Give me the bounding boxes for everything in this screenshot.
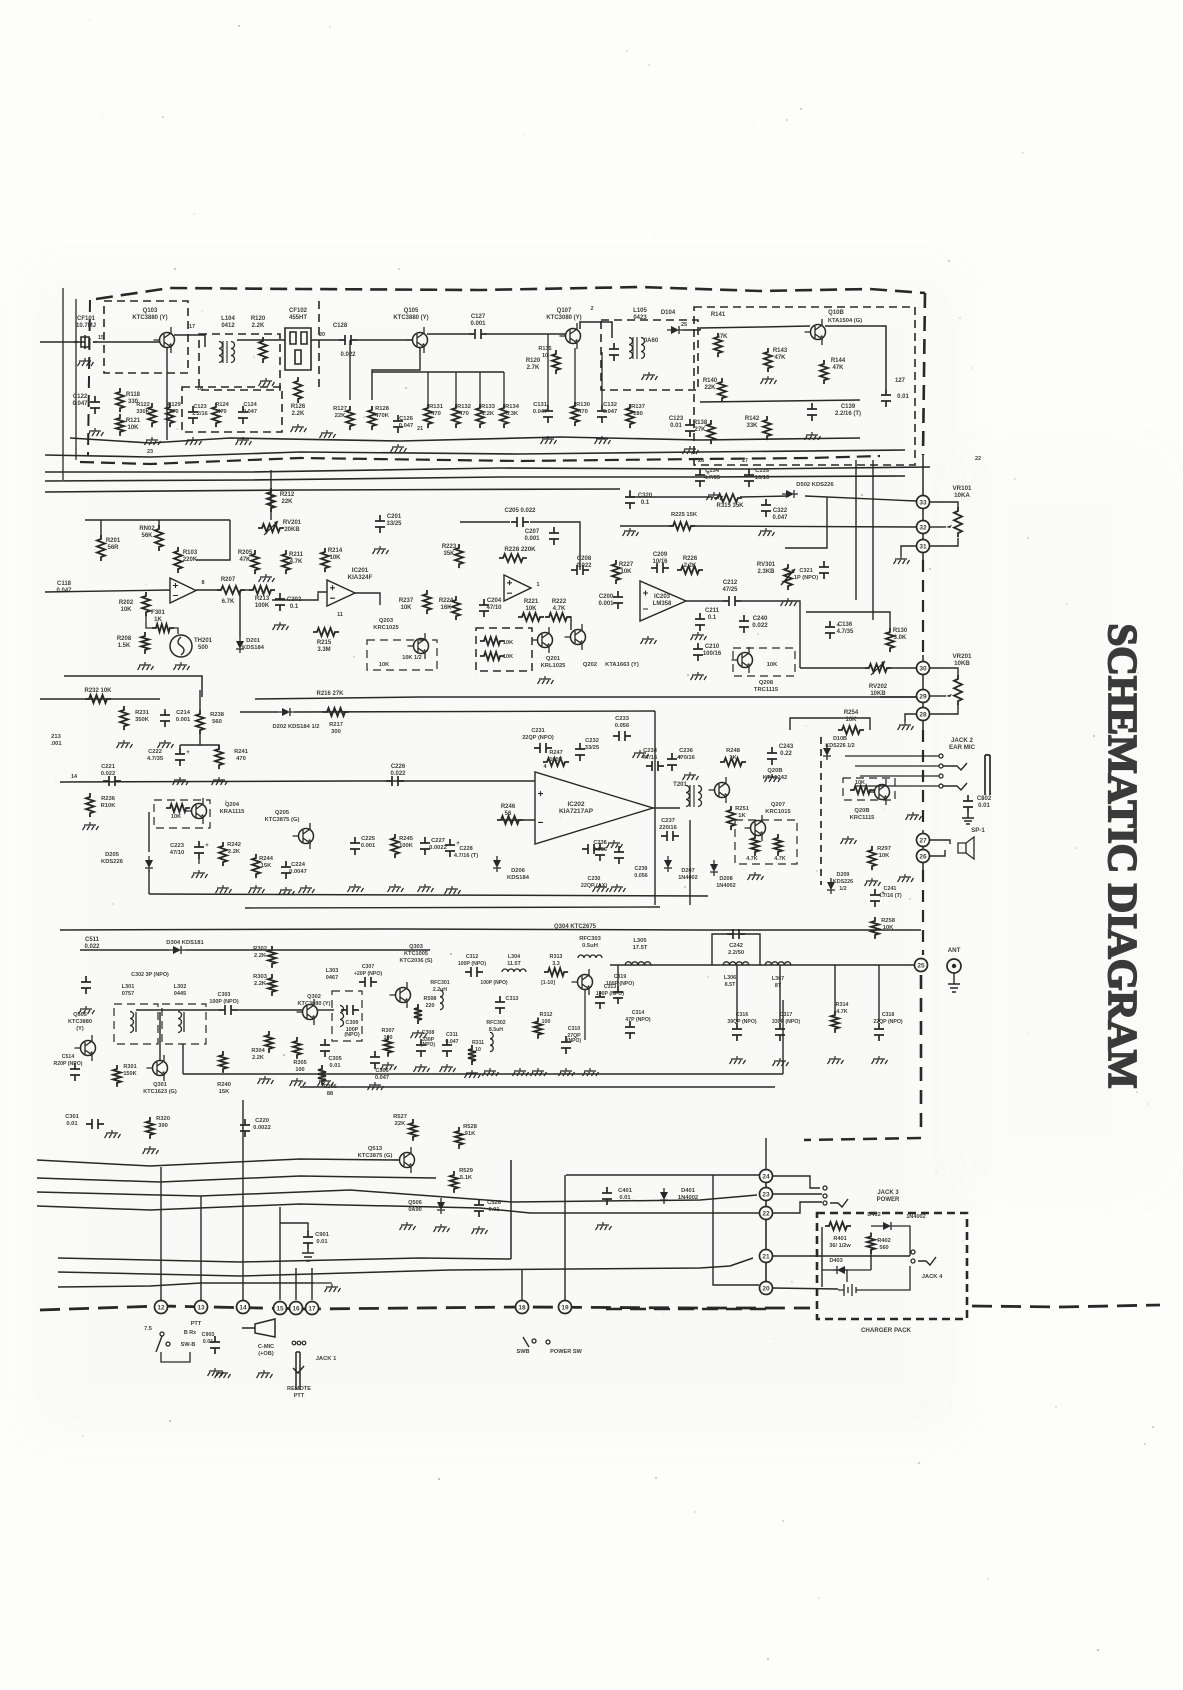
svg-text:31: 31 [919, 544, 927, 551]
diode D502 [782, 490, 798, 498]
wire band2 loop4 [158, 520, 160, 528]
svg-text:22: 22 [762, 1211, 770, 1218]
ceramic filter CF102 [285, 328, 311, 370]
svg-text:KRC1025: KRC1025 [373, 625, 399, 631]
bottom connector dashed line [40, 1306, 810, 1310]
svg-text:JACK 3: JACK 3 [877, 1190, 899, 1196]
capacitor C220 [240, 1119, 250, 1137]
svg-text:36/ 1/2w: 36/ 1/2w [829, 1243, 851, 1249]
capacitor C321 [819, 561, 829, 579]
capacitor C313 [495, 996, 505, 1014]
resistor R527 vert [409, 1119, 417, 1141]
wire Q103 emitter [166, 348, 168, 440]
svg-text:KRC1115: KRC1115 [850, 815, 876, 821]
op-amp IC201c [504, 575, 531, 601]
svg-text:C305: C305 [328, 1056, 341, 1062]
vertical to pin 24 [765, 1138, 767, 1176]
resistor R245 vert [391, 834, 399, 858]
ground C122 [88, 428, 104, 436]
capacitor C210 [693, 643, 703, 661]
capacitor C310 [561, 1036, 571, 1054]
svg-text:JACK 1: JACK 1 [316, 1356, 337, 1362]
svg-text:23: 23 [147, 449, 153, 455]
resistor R258 vert [871, 917, 879, 939]
svg-text:R131: R131 [429, 404, 444, 410]
svg-text:0A90: 0A90 [408, 1207, 421, 1213]
wire 232 row [40, 698, 160, 700]
capacitor C139 [807, 403, 817, 421]
transistor Q304 [578, 975, 593, 990]
svg-text:R527: R527 [393, 1114, 407, 1120]
svg-text:Q203: Q203 [379, 618, 394, 624]
svg-text:4.7/16 (T): 4.7/16 (T) [454, 853, 478, 859]
svg-text:10K: 10K [120, 607, 132, 613]
svg-text:32: 32 [919, 525, 927, 532]
svg-text:KDS226 1/2: KDS226 1/2 [825, 743, 854, 749]
ground C401 [596, 1222, 612, 1230]
transformer T201 [686, 786, 690, 807]
resistor R320 vert [146, 1117, 154, 1139]
svg-text:100P (NPO): 100P (NPO) [606, 981, 634, 987]
svg-text:B Rx: B Rx [184, 1330, 196, 1336]
svg-text:0.01: 0.01 [978, 803, 990, 809]
wires jack2 [845, 755, 939, 757]
ground VR201 [905, 714, 916, 722]
svg-text:Q506: Q506 [408, 1200, 422, 1206]
svg-text:L104: L104 [221, 316, 235, 322]
svg-text:470: 470 [169, 409, 178, 415]
svg-text:C214: C214 [176, 710, 191, 716]
svg-text:Q201: Q201 [546, 656, 561, 662]
svg-text:C401: C401 [618, 1188, 633, 1194]
svg-text:C231: C231 [531, 728, 544, 734]
capacitor C202 [275, 593, 285, 611]
svg-text:KTC3880 (Y): KTC3880 (Y) [393, 315, 428, 321]
capacitor C223 [194, 841, 204, 859]
svg-text:R247: R247 [549, 750, 562, 756]
svg-text:IC202: IC202 [567, 801, 584, 808]
connector pin 32 [917, 521, 930, 534]
svg-text:100K: 100K [255, 603, 270, 609]
left border vertical 2 [75, 299, 77, 460]
svg-text:POWER SW: POWER SW [550, 1349, 582, 1355]
ground C134 [707, 492, 723, 500]
svg-text:R216 27K: R216 27K [316, 691, 344, 697]
svg-text:21: 21 [762, 1254, 770, 1261]
svg-text:C242: C242 [729, 943, 743, 949]
svg-text:C232: C232 [585, 738, 599, 744]
svg-text:22K: 22K [281, 499, 293, 505]
svg-text:10K: 10K [525, 606, 537, 612]
resistor R238 vert [196, 710, 204, 734]
svg-text:2.2K: 2.2K [254, 981, 267, 987]
svg-text:SCHEMATIC DIAGRAM: SCHEMATIC DIAGRAM [1100, 623, 1146, 1088]
svg-text:1: 1 [536, 582, 539, 588]
wire drop 14 [242, 1100, 244, 1300]
svg-text:C221: C221 [101, 764, 116, 770]
resistor R251 vert [727, 806, 735, 830]
svg-text:0.01: 0.01 [330, 1063, 341, 1069]
wire drop 13 [200, 1196, 202, 1300]
capacitor C317 [775, 1023, 785, 1041]
resistor R132 vert [452, 404, 460, 428]
svg-text:R258: R258 [881, 918, 896, 924]
svg-text:11: 11 [337, 612, 343, 618]
svg-text:Q107: Q107 [557, 308, 572, 314]
resistor R205 vert [251, 550, 259, 574]
transistor Q513 [400, 1153, 415, 1168]
svg-text:C307: C307 [362, 964, 375, 970]
diode D201 [236, 637, 244, 653]
ground C903 [208, 1368, 224, 1376]
svg-text:CF101: CF101 [77, 316, 96, 322]
svg-text:KTC3875 (G): KTC3875 (G) [358, 1153, 393, 1159]
wire bundle 2 [37, 1176, 436, 1182]
svg-text:KIA324F: KIA324F [348, 574, 373, 581]
capacitor C322 [761, 499, 771, 517]
capacitor C903 [210, 1336, 220, 1354]
svg-text:330P (NPO): 330P (NPO) [772, 1019, 800, 1025]
resistor R128 vert [368, 406, 376, 430]
svg-text:R135: R135 [538, 346, 551, 352]
wire band2 long 697 [255, 697, 916, 699]
ground q201 [538, 676, 554, 684]
wire d304 row [80, 949, 169, 951]
svg-text:R225 15K: R225 15K [671, 512, 698, 518]
diode D206 [493, 856, 501, 872]
capacitor C228 [445, 839, 455, 857]
svg-text:10K: 10K [503, 654, 513, 660]
svg-text:47/16: 47/16 [643, 755, 658, 761]
svg-text:1.5K: 1.5K [118, 643, 131, 649]
svg-text:RN02: RN02 [139, 526, 155, 532]
wire r315 [629, 490, 631, 498]
svg-text:3.0K: 3.0K [894, 635, 907, 641]
svg-text:2.2/16 (T): 2.2/16 (T) [835, 411, 861, 417]
capacitor C312 [465, 967, 483, 977]
bottom dashed segs [606, 1308, 767, 1310]
vertical box left [182, 1044, 184, 1074]
wire CF102-C128 [311, 339, 340, 341]
wire drop 16 [295, 1268, 297, 1300]
wire r254 box [790, 718, 870, 730]
svg-text:KDS184: KDS184 [507, 875, 530, 881]
svg-text:20: 20 [319, 332, 325, 338]
svg-text:220/16: 220/16 [659, 825, 678, 831]
svg-text:R238: R238 [210, 712, 225, 718]
resistor R244 vert [252, 854, 260, 878]
svg-text:10K: 10K [845, 717, 857, 723]
wire box line1 [183, 1073, 783, 1075]
resistor F301 [152, 624, 174, 632]
connector pin 26 [917, 850, 930, 863]
svg-text:C319: C319 [614, 974, 627, 980]
svg-text:R251: R251 [735, 806, 750, 812]
svg-text:R305: R305 [293, 1060, 306, 1066]
svg-text:SWB: SWB [516, 1349, 529, 1355]
inductor L305 [625, 962, 651, 965]
svg-text:C122: C122 [73, 394, 88, 400]
svg-text:R211: R211 [289, 552, 304, 558]
svg-text:35K: 35K [443, 551, 455, 557]
wire q202 link [567, 617, 571, 630]
svg-text:15: 15 [98, 335, 104, 341]
svg-text:C136: C136 [838, 622, 853, 628]
svg-text:470K: 470K [375, 413, 390, 419]
capacitor C221 [103, 776, 121, 786]
svg-text:R212: R212 [280, 492, 295, 498]
connector pin 33 [917, 496, 930, 509]
resistor R211 vert [282, 550, 290, 574]
capacitor C239 [614, 846, 624, 864]
resistor R215 [313, 628, 339, 636]
svg-text:0.01: 0.01 [66, 1121, 78, 1127]
svg-text:JACK 4: JACK 4 [922, 1274, 943, 1280]
capacitor C301 [86, 1119, 104, 1129]
resistor R142 vert [763, 416, 771, 440]
svg-text:6.7K: 6.7K [222, 599, 235, 605]
resistor R402 vert [867, 1233, 875, 1254]
svg-text:2.2K: 2.2K [252, 323, 265, 329]
resistor R134 vert [500, 404, 508, 428]
wire ic202 in [534, 781, 536, 820]
svg-text:KRL1025: KRL1025 [541, 663, 567, 669]
dashed top border of receiver section [96, 287, 925, 299]
svg-text:4.7/35: 4.7/35 [147, 756, 164, 762]
ground near 17 [314, 1282, 332, 1284]
resistor R508 vert [414, 1004, 422, 1024]
svg-text:R312: R312 [540, 1012, 553, 1018]
ground R297 [865, 878, 881, 886]
wire 23 right [773, 1193, 822, 1195]
vertical box right [782, 1000, 784, 1074]
jack contacts [939, 754, 943, 758]
bus wire 4 [45, 489, 620, 492]
resistor R312 vert [534, 1018, 542, 1039]
svg-text:47K: 47K [716, 334, 728, 340]
svg-text:100/16: 100/16 [703, 651, 722, 657]
svg-text:C-MIC: C-MIC [258, 1344, 274, 1350]
resistor R207 [217, 586, 245, 594]
resistor R140 [718, 378, 726, 402]
svg-text:0.022: 0.022 [84, 944, 100, 950]
svg-text:0.047: 0.047 [533, 409, 548, 415]
speaker SP-1 [958, 837, 974, 859]
wire bracket over connectors [201, 1282, 314, 1284]
resistor R141 vert [714, 333, 722, 357]
op-amp IC203 [640, 581, 686, 621]
capacitor C124 [238, 406, 248, 424]
svg-text:R246: R246 [501, 804, 516, 810]
ground mid1 [320, 430, 336, 438]
svg-text:1P (NPO): 1P (NPO) [794, 575, 818, 581]
capacitor C318 [874, 1023, 884, 1041]
svg-text:33: 33 [919, 500, 927, 507]
wire c901 stub [280, 1223, 308, 1232]
svg-text:C303: C303 [218, 992, 231, 998]
ground L105 [642, 372, 658, 380]
svg-text:C124: C124 [243, 402, 257, 408]
transistor Q301 [153, 1061, 168, 1076]
svg-text:D401: D401 [681, 1188, 696, 1194]
svg-text:4.7/35: 4.7/35 [837, 629, 854, 635]
svg-text:C223: C223 [170, 843, 185, 849]
svg-text:R201: R201 [106, 538, 121, 544]
svg-text:16: 16 [292, 1306, 300, 1313]
svg-text:R132: R132 [457, 404, 471, 410]
capacitor C306 [370, 1051, 380, 1069]
svg-text:0.022: 0.022 [390, 771, 406, 777]
crystal filter CF101 [74, 335, 97, 349]
resistor RN02 vert [155, 525, 163, 551]
wire d205 loop [148, 812, 150, 852]
svg-text:1K: 1K [738, 813, 746, 819]
ground row3 [236, 437, 252, 445]
resistor R314 vert [831, 1011, 839, 1033]
wire audio main [60, 781, 535, 782]
svg-text:0.1: 0.1 [641, 500, 650, 506]
svg-text:0.047: 0.047 [243, 409, 257, 415]
bus wire 1 [45, 450, 905, 457]
svg-text:5.1K: 5.1K [460, 1175, 473, 1181]
inductor L304 [502, 969, 526, 972]
svg-text:0A60: 0A60 [644, 338, 659, 344]
dashed vertical pair [820, 737, 822, 885]
svg-text:0.22: 0.22 [780, 751, 792, 757]
connector pin 28 [917, 708, 930, 721]
svg-text:470: 470 [459, 411, 469, 417]
svg-text:2: 2 [590, 306, 593, 312]
svg-text:C240: C240 [753, 615, 768, 622]
svg-text:3.3: 3.3 [552, 961, 560, 967]
svg-text:KTC1623 (G): KTC1623 (G) [143, 1089, 177, 1095]
svg-text:KDS226: KDS226 [833, 879, 853, 885]
resistor R144 vert [820, 360, 828, 384]
svg-text:C317: C317 [780, 1012, 793, 1018]
capacitor C233 [613, 731, 631, 741]
svg-text:(+OB): (+OB) [258, 1351, 274, 1357]
svg-text:127: 127 [895, 378, 906, 384]
svg-text:C211: C211 [705, 608, 720, 614]
ground R508 [411, 1030, 427, 1038]
svg-text:R130: R130 [893, 628, 908, 634]
jack JACK3 contacts [823, 1186, 827, 1190]
svg-text:100: 100 [384, 1035, 393, 1041]
wire link 24-20 [713, 1175, 759, 1285]
vertical 655 [654, 711, 656, 905]
svg-text:R214: R214 [328, 548, 343, 554]
switch PTT [160, 1332, 164, 1336]
svg-text:CHARGER PACK: CHARGER PACK [861, 1327, 912, 1334]
svg-text:C313: C313 [506, 996, 519, 1002]
resistor R227 vert [612, 560, 620, 584]
svg-text:0.056: 0.056 [634, 873, 648, 879]
svg-text:390: 390 [158, 1123, 168, 1129]
resistor R529 vert [450, 1171, 458, 1193]
svg-text:220K: 220K [183, 557, 198, 563]
svg-text:47/10: 47/10 [170, 850, 185, 856]
ground L104 [259, 378, 275, 386]
wire r232 box [64, 676, 202, 697]
right column vertical dashed 4 [920, 975, 923, 1135]
ground C211 [691, 632, 707, 640]
svg-text:C239: C239 [635, 866, 648, 872]
ground C322 [759, 528, 775, 536]
svg-text:350K: 350K [135, 717, 150, 723]
ground q209 [841, 836, 857, 844]
svg-text:F301: F301 [151, 610, 165, 616]
wire vert 856 [855, 460, 857, 600]
wire C127-Q107 [487, 333, 566, 335]
svg-text:0467: 0467 [326, 975, 338, 981]
connector pin 31 [917, 540, 930, 553]
svg-text:0.01: 0.01 [316, 1239, 328, 1245]
transistor Q107 [566, 329, 581, 344]
svg-text:47K: 47K [239, 557, 251, 563]
dashed bus line [80, 456, 880, 464]
svg-text:R302: R302 [253, 946, 267, 952]
svg-text:D502 KDS226: D502 KDS226 [796, 482, 834, 488]
bus wire 3 [45, 476, 905, 481]
wire C242 loop [712, 934, 760, 965]
capacitor C134 [695, 469, 705, 487]
ground R143 [761, 376, 777, 384]
svg-text:150K: 150K [123, 1071, 136, 1077]
svg-text:R224: R224 [439, 598, 454, 604]
svg-text:15: 15 [276, 1306, 284, 1313]
resistor R221 [518, 613, 544, 621]
capacitor C132 [597, 405, 607, 423]
op-amp IC201a [170, 578, 196, 603]
capacitor C222 [175, 748, 185, 766]
svg-text:R311: R311 [472, 1040, 484, 1046]
connector pin 19 [559, 1301, 572, 1314]
connector pin 12 [155, 1301, 168, 1314]
svg-text:C131: C131 [533, 402, 548, 408]
connector pin 15 [274, 1302, 287, 1315]
svg-text:C311: C311 [446, 1032, 458, 1038]
svg-text:R223: R223 [442, 544, 457, 550]
paper tint over schematic area [28, 272, 963, 1437]
dashed left border [88, 300, 90, 455]
svg-text:R236: R236 [101, 796, 116, 802]
wire 21 jack4 [773, 1255, 910, 1257]
wire band3 bottom [149, 894, 708, 896]
grounds audio row [192, 870, 208, 878]
svg-text:C233: C233 [615, 716, 630, 722]
svg-text:D202 KDS184 1/2: D202 KDS184 1/2 [272, 724, 319, 730]
svg-text:8.5uH: 8.5uH [489, 1027, 503, 1033]
svg-text:0412: 0412 [221, 323, 235, 329]
svg-text:0.022: 0.022 [101, 771, 116, 777]
wire L104-CF102 [237, 339, 285, 341]
svg-text:R315 35K: R315 35K [716, 503, 744, 509]
svg-text:100: 100 [295, 1067, 304, 1073]
svg-text:JACK 2: JACK 2 [951, 737, 974, 744]
svg-text:D201: D201 [246, 638, 261, 644]
svg-text:KTA1663 (Y): KTA1663 (Y) [605, 662, 639, 668]
svg-text:R248: R248 [726, 748, 741, 754]
svg-text:R120: R120 [251, 316, 266, 322]
svg-text:C208: C208 [577, 556, 592, 562]
pot RV201 [258, 524, 284, 532]
svg-text:1K: 1K [729, 755, 737, 761]
svg-text:91K: 91K [465, 1131, 476, 1137]
svg-text:10K: 10K [400, 605, 412, 611]
resistor R246 [497, 816, 523, 824]
ground R231 [117, 740, 133, 748]
wire sw-b [161, 1352, 190, 1362]
